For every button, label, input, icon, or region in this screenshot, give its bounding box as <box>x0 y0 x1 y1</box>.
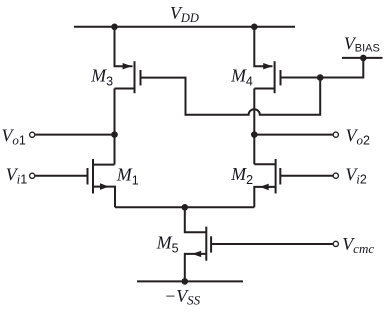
transistor M1 <box>88 159 116 207</box>
junction dot VDD / M4 <box>251 24 258 31</box>
wire Vo2 <box>254 134 333 136</box>
svg-text:VDD: VDD <box>170 3 199 25</box>
svg-text:Vi1: Vi1 <box>6 164 28 186</box>
wire common source node <box>115 206 254 208</box>
wire M3 drain to M1 drain (Vo1 column) <box>114 89 116 165</box>
terminal Vi2 <box>333 173 338 178</box>
junction dot common source node <box>182 204 189 211</box>
wire Vi1 <box>35 175 87 177</box>
svg-text:M5: M5 <box>156 233 179 256</box>
junction dot VBIAS <box>360 55 367 62</box>
wire M5 gate to Vcmc <box>211 243 333 245</box>
terminal Vi1 <box>30 173 35 178</box>
junction dot VSS rail <box>182 278 189 285</box>
VBIAS line <box>342 57 383 59</box>
VSS rail <box>137 280 243 282</box>
svg-text:M2: M2 <box>230 164 253 187</box>
svg-text:Vo2: Vo2 <box>346 125 370 147</box>
terminal Vcmc <box>333 241 338 246</box>
junction dot Vo2 node <box>251 131 258 138</box>
terminal Vo1 <box>30 132 35 137</box>
svg-text:M1: M1 <box>116 165 139 188</box>
wire M3 gate to gate net (with hop over Vo2 column) <box>141 78 321 115</box>
transistor M5 <box>185 207 211 281</box>
junction dot Vo1 node <box>111 131 118 138</box>
junction dot VDD / M3 <box>111 24 118 31</box>
svg-text:M3: M3 <box>90 65 113 88</box>
transistor M4 <box>254 27 280 93</box>
junction dot gate net <box>317 74 324 81</box>
terminal Vo2 <box>333 132 338 137</box>
wire Vo1 <box>35 134 114 136</box>
svg-text:M4: M4 <box>230 66 253 89</box>
transistor M3 <box>115 27 141 93</box>
svg-text:Vcmc: Vcmc <box>342 234 374 256</box>
VDD rail <box>74 26 295 28</box>
wire Vi2 <box>280 175 333 177</box>
svg-text:−VSS: −VSS <box>164 286 200 308</box>
svg-text:Vi2: Vi2 <box>345 164 367 186</box>
transistor M2 <box>254 159 280 207</box>
svg-text:VBIAS: VBIAS <box>344 33 380 54</box>
wire M4 drain to M2 drain (Vo2 column) <box>253 89 255 165</box>
svg-text:Vo1: Vo1 <box>2 125 26 147</box>
wire M4 gate to VBIAS <box>281 58 364 78</box>
